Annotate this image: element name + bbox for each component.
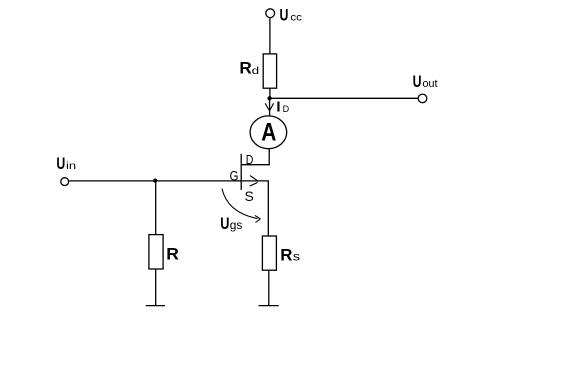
svg-text:I: I — [276, 99, 280, 116]
node drain junction — [267, 96, 271, 100]
label ID — [276, 99, 289, 116]
wire Rd to drain node — [269, 88, 271, 98]
svg-text:U: U — [220, 214, 229, 233]
label Ucc — [280, 5, 302, 24]
transistor Q1 gate bar — [240, 154, 242, 190]
wire gate (Uin line to Q1) — [69, 180, 241, 182]
label Rd — [239, 58, 259, 77]
label Ugs — [220, 214, 242, 233]
svg-text:R: R — [166, 245, 179, 264]
wire source to Rs — [241, 181, 268, 236]
wire node to Uout — [270, 97, 418, 99]
resistor Rs — [262, 236, 276, 270]
svg-text:U: U — [413, 72, 422, 91]
svg-text:A: A — [261, 118, 276, 146]
svg-text:cc: cc — [290, 13, 302, 24]
svg-text:d: d — [252, 65, 260, 77]
svg-text:D: D — [246, 152, 254, 167]
label Rs — [280, 245, 300, 264]
wire Ucc to Rd — [269, 18, 271, 54]
svg-text:S: S — [245, 188, 254, 204]
svg-text:s: s — [293, 252, 301, 264]
terminal Ucc — [266, 9, 275, 18]
wire ammeter to drain elbow — [242, 149, 270, 165]
ground (right) — [259, 305, 279, 307]
wire node to ammeter — [269, 98, 271, 116]
ground (left) — [146, 305, 165, 307]
svg-text:out: out — [423, 78, 438, 90]
svg-text:U: U — [280, 5, 289, 24]
ammeter A1 — [250, 116, 287, 149]
arc arrow Ugs — [222, 189, 261, 223]
node gate junction — [153, 179, 157, 183]
label Uin — [56, 154, 76, 173]
wire junction to R — [155, 181, 157, 235]
resistor Rd — [263, 54, 276, 88]
source arrow of Q1 — [250, 176, 259, 187]
label Uout — [413, 72, 438, 91]
svg-text:D: D — [283, 104, 290, 114]
svg-text:R: R — [239, 58, 251, 77]
resistor R — [149, 235, 163, 269]
terminal Uin — [61, 178, 69, 186]
terminal Uout — [418, 94, 427, 103]
current arrow ID — [265, 103, 273, 110]
wire R to ground — [155, 269, 157, 306]
svg-text:R: R — [280, 245, 292, 264]
svg-text:gs: gs — [230, 218, 243, 232]
svg-text:in: in — [66, 160, 76, 172]
wire Rs to ground — [268, 270, 270, 305]
svg-text:U: U — [56, 154, 65, 173]
